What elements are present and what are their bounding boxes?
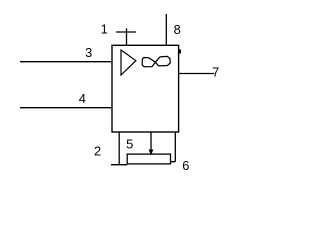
pin 4 lead — [20, 107, 112, 109]
svg-text:1: 1 — [101, 22, 108, 37]
infinity (endless loop) symbol — [142, 56, 170, 66]
IC body U1 — [112, 45, 179, 132]
wiper arrowhead — [149, 150, 154, 156]
pin 8 lead — [165, 14, 167, 45]
pin 1 crossbar — [116, 28, 136, 32]
svg-text:4: 4 — [79, 91, 86, 106]
pin stub tick on right edge — [179, 50, 181, 54]
svg-text:7: 7 — [212, 64, 219, 79]
pin 1 lead — [126, 32, 128, 45]
amplifier triangle — [121, 50, 136, 75]
svg-text:5: 5 — [126, 136, 133, 151]
pin 3 lead — [20, 61, 112, 63]
svg-text:8: 8 — [174, 22, 181, 37]
svg-text:3: 3 — [85, 45, 92, 60]
potentiometer body R1 — [127, 154, 170, 164]
pin 5 wiper wire — [150, 132, 152, 150]
svg-text:6: 6 — [182, 158, 189, 173]
pin 6 wire — [171, 132, 176, 162]
pin 7 lead — [179, 73, 214, 75]
pin 2 wire — [111, 132, 127, 165]
svg-text:2: 2 — [94, 144, 101, 159]
